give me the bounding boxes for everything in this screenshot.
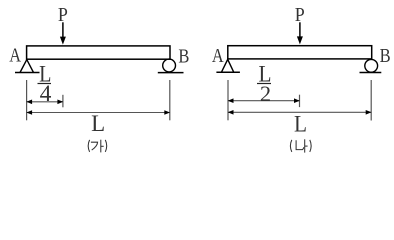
ground line under roller (left) bbox=[158, 72, 184, 74]
fraction label L/4 (left diagram) bbox=[38, 62, 52, 108]
svg-text:B: B bbox=[178, 47, 189, 68]
extension line left (left diagram) bbox=[26, 80, 28, 120]
svg-text:A: A bbox=[212, 46, 224, 67]
node label B (left) bbox=[178, 47, 189, 68]
svg-text:B: B bbox=[380, 46, 391, 67]
pin support at A (right) bbox=[221, 59, 233, 72]
ground line under pin (left) bbox=[15, 72, 40, 74]
load label P (left) bbox=[58, 5, 68, 26]
dimension line L (left diagram) bbox=[26, 110, 170, 115]
caption (ga) bbox=[88, 140, 107, 153]
node label A (left) bbox=[9, 45, 21, 66]
extension line right (left diagram) bbox=[169, 80, 171, 120]
tick at L/2 point (right diagram) bbox=[299, 95, 301, 107]
svg-text:A: A bbox=[9, 45, 21, 66]
extension line left (right diagram) bbox=[227, 80, 229, 120]
dimension text L (right diagram) bbox=[294, 111, 307, 136]
svg-text:2: 2 bbox=[260, 81, 271, 106]
svg-text:L: L bbox=[91, 111, 105, 136]
node label A (right) bbox=[212, 46, 224, 67]
caption (na) bbox=[290, 139, 311, 152]
dimension line L/4 (left diagram) bbox=[26, 100, 63, 105]
ground line under pin (right) bbox=[216, 71, 240, 73]
load arrow P (left) bbox=[60, 22, 66, 44]
load arrow P (right) bbox=[297, 22, 303, 44]
ground line under roller (right) bbox=[360, 72, 382, 74]
load label P (right) bbox=[295, 5, 305, 26]
dimension line L (right diagram) bbox=[228, 110, 372, 115]
pin support at A (left) bbox=[20, 60, 34, 73]
roller support at B (right) bbox=[365, 59, 378, 72]
svg-text:L: L bbox=[294, 111, 307, 136]
extension line right (right diagram) bbox=[370, 80, 372, 121]
fraction label L/2 (right diagram) bbox=[257, 62, 272, 106]
node label B (right) bbox=[380, 46, 391, 67]
svg-text:4: 4 bbox=[40, 81, 52, 107]
beam (na) bbox=[228, 46, 372, 59]
roller support at B (left) bbox=[163, 59, 176, 72]
dimension line L/2 (right diagram) bbox=[228, 98, 300, 103]
beam (ga) bbox=[27, 46, 170, 59]
tick at L/4 point (left diagram) bbox=[62, 95, 64, 108]
dimension text L (left diagram) bbox=[91, 111, 105, 136]
